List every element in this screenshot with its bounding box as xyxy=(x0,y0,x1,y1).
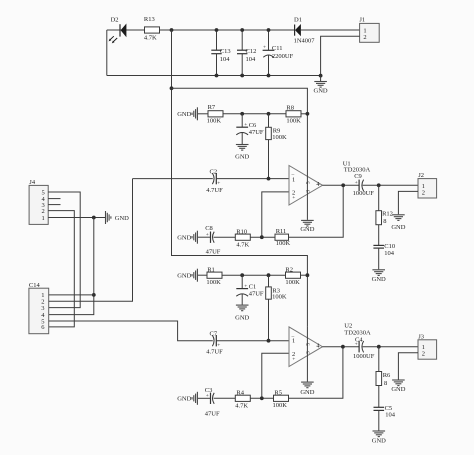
node bias R3 xyxy=(267,273,271,277)
svg-text:4.7K: 4.7K xyxy=(144,35,157,42)
wire xyxy=(198,397,211,399)
connector J4 xyxy=(29,179,48,224)
wire feedback to output U2 xyxy=(289,347,343,399)
capacitor C8 47UF xyxy=(205,225,221,255)
ground power GND xyxy=(314,76,328,95)
svg-text:+: + xyxy=(244,122,247,128)
node +V junction xyxy=(170,28,174,32)
resistor R13 xyxy=(144,16,160,41)
svg-text:3: 3 xyxy=(305,351,311,354)
resistor R12 8 xyxy=(376,185,393,225)
svg-text:GND: GND xyxy=(300,226,314,233)
wire GND rail xyxy=(107,75,321,77)
svg-text:1000UF: 1000UF xyxy=(353,353,375,360)
svg-text:47UF: 47UF xyxy=(205,411,220,418)
svg-text:100K: 100K xyxy=(206,279,221,286)
svg-text:1N4007: 1N4007 xyxy=(294,38,316,45)
svg-text:R8: R8 xyxy=(286,104,294,111)
svg-text:GND: GND xyxy=(300,389,314,396)
wire +V drop to U2 rail xyxy=(172,30,308,327)
op-amp U2 xyxy=(289,322,371,366)
svg-text:100K: 100K xyxy=(285,279,300,286)
capacitor C2 4.7UF xyxy=(206,169,223,194)
svg-text:4.7UF: 4.7UF xyxy=(206,349,223,356)
wire bias row U2 xyxy=(222,274,286,276)
svg-text:4.7K: 4.7K xyxy=(235,403,248,410)
resistor R1 100K xyxy=(206,267,222,286)
ground signal GND feedback U1 xyxy=(177,231,197,244)
ground power GND U2 xyxy=(300,382,314,396)
svg-text:5: 5 xyxy=(305,181,311,184)
svg-text:D1: D1 xyxy=(294,17,302,24)
svg-text:D2: D2 xyxy=(111,17,119,24)
ground power GND below C1 xyxy=(235,305,249,322)
svg-text:GND: GND xyxy=(177,235,191,242)
connector J2 xyxy=(418,172,437,198)
node ground junction xyxy=(319,74,323,78)
wire C4 to J3 xyxy=(363,346,418,348)
capacitor C3 47UF xyxy=(205,387,220,418)
svg-text:+: + xyxy=(355,180,358,186)
resistor R5 100K xyxy=(273,390,289,410)
node R9 input junction xyxy=(267,177,271,181)
svg-text:J3: J3 xyxy=(418,333,424,340)
svg-text:+: + xyxy=(292,195,295,201)
wire U1 pin3 to ground xyxy=(306,166,308,220)
wire xyxy=(214,236,236,238)
svg-text:1: 1 xyxy=(292,338,295,345)
node +V branch xyxy=(170,86,174,90)
svg-text:GND: GND xyxy=(391,224,405,231)
resistor R8 100K xyxy=(286,104,301,124)
svg-text:GND: GND xyxy=(391,386,405,393)
node R3 input junction xyxy=(267,339,271,343)
svg-text:GND: GND xyxy=(235,153,249,160)
resistor R3 100K xyxy=(266,275,287,341)
wire +V top rail xyxy=(107,29,295,31)
svg-text:R10: R10 xyxy=(236,228,247,235)
wire U2 pin2 xyxy=(262,353,289,398)
node R2 to +V xyxy=(306,273,310,277)
node R8 to +V xyxy=(306,112,310,116)
wire bias row U1 xyxy=(223,113,286,115)
wire J4 pin3 stub xyxy=(48,204,60,206)
svg-text:100K: 100K xyxy=(272,134,287,141)
ground power GND C10 xyxy=(372,270,386,283)
ground signal GND feedback U2 xyxy=(177,392,197,405)
node bias C1 xyxy=(240,273,244,277)
wire C14 pin2 to C2 input xyxy=(49,179,133,302)
svg-text:J2: J2 xyxy=(418,172,424,179)
resistor R11 100K xyxy=(275,228,290,247)
svg-text:+: + xyxy=(355,342,358,348)
svg-text:100K: 100K xyxy=(273,402,288,409)
svg-text:1000UF: 1000UF xyxy=(353,190,375,197)
svg-text:TD2030A: TD2030A xyxy=(344,329,371,336)
ground signal GND bias U2 xyxy=(177,269,197,282)
svg-text:C11: C11 xyxy=(272,45,283,52)
resistor R4 4.7K xyxy=(235,390,250,410)
svg-text:R2: R2 xyxy=(285,267,293,274)
wire xyxy=(250,236,275,238)
svg-text:+: + xyxy=(292,357,295,363)
diode D1 1N4007 xyxy=(294,17,360,45)
svg-text:100K: 100K xyxy=(272,294,287,301)
connector J1 xyxy=(359,16,379,42)
node output R6 xyxy=(377,345,381,349)
wire input row U1 xyxy=(133,178,213,180)
svg-text:3: 3 xyxy=(41,305,44,312)
svg-text:2: 2 xyxy=(363,34,366,41)
svg-text:104: 104 xyxy=(246,56,257,63)
svg-text:+: + xyxy=(206,232,209,238)
wire C7 to U2 pin1 xyxy=(216,340,289,342)
svg-text:R12: R12 xyxy=(382,211,393,218)
ground power GND C5 xyxy=(372,431,386,445)
svg-text:C14: C14 xyxy=(29,282,41,289)
wire LED return vertical xyxy=(106,30,108,76)
wire U1 output xyxy=(323,184,360,186)
wire J4 pin2 to C14 pin6 xyxy=(48,211,74,327)
svg-text:104: 104 xyxy=(385,412,396,419)
svg-text:100K: 100K xyxy=(276,240,291,247)
node feedback junction U1 xyxy=(260,235,264,239)
resistor R9 100K xyxy=(266,114,287,179)
node output feedback xyxy=(341,183,345,187)
node bias R9 xyxy=(267,112,271,116)
svg-text:+: + xyxy=(263,44,266,50)
resistor R6 8 xyxy=(376,347,391,387)
svg-text:C7: C7 xyxy=(210,330,218,337)
svg-text:C2: C2 xyxy=(210,169,218,176)
capacitor C13 xyxy=(211,28,230,77)
wire xyxy=(198,274,207,276)
svg-text:+: + xyxy=(217,181,220,187)
node J4 ground junction xyxy=(92,216,96,220)
svg-text:8: 8 xyxy=(383,218,386,225)
capacitor C4 1000UF xyxy=(353,336,375,360)
svg-text:2200UF: 2200UF xyxy=(272,53,294,60)
svg-text:GND: GND xyxy=(177,396,191,403)
wire xyxy=(214,397,236,399)
ground power GND J2 xyxy=(391,215,405,231)
wire J4 pin5 to C14 pin3 xyxy=(48,192,80,308)
wire U1 pin2 xyxy=(262,192,289,237)
svg-text:R6: R6 xyxy=(383,372,391,379)
svg-text:+: + xyxy=(206,393,209,399)
svg-text:47UF: 47UF xyxy=(249,129,264,136)
svg-text:3: 3 xyxy=(305,190,311,193)
node output R12 xyxy=(377,183,381,187)
capacitor C5 104 xyxy=(374,386,396,431)
svg-text:104: 104 xyxy=(220,56,231,63)
resistor R2 100K xyxy=(285,267,300,286)
svg-text:GND: GND xyxy=(177,111,191,118)
svg-text:GND: GND xyxy=(235,315,249,322)
capacitor C6 47UF xyxy=(236,114,264,144)
svg-text:1: 1 xyxy=(292,176,295,183)
LED D2 xyxy=(109,17,127,44)
svg-text:R7: R7 xyxy=(208,104,216,111)
svg-text:R13: R13 xyxy=(144,16,155,23)
ground power GND below C6 xyxy=(235,145,249,161)
svg-text:4.7UF: 4.7UF xyxy=(206,187,223,194)
svg-text:GND: GND xyxy=(372,276,386,283)
node output feedback U2 xyxy=(341,345,345,349)
capacitor C9 1000UF xyxy=(353,173,375,197)
svg-text:104: 104 xyxy=(384,250,395,257)
svg-text:J1: J1 xyxy=(359,16,365,23)
wire xyxy=(250,397,273,399)
op-amp U1 xyxy=(289,160,370,205)
wire feedback to output U1 xyxy=(289,185,344,237)
node C14 pin1 junction xyxy=(92,293,96,297)
svg-text:GND: GND xyxy=(372,438,386,445)
wire C9 to J2 xyxy=(363,184,418,186)
node bias C6 xyxy=(240,112,244,116)
svg-text:R11: R11 xyxy=(276,228,287,235)
svg-text:U2: U2 xyxy=(344,322,352,329)
capacitor C12 xyxy=(237,28,256,77)
connector J3 xyxy=(418,333,437,359)
wire J2 pin2 to ground xyxy=(398,191,418,214)
wire xyxy=(301,274,308,276)
svg-text:C13: C13 xyxy=(220,48,231,55)
svg-text:47UF: 47UF xyxy=(249,290,264,297)
wire xyxy=(301,113,307,115)
wire C2 to U1 pin1 xyxy=(216,178,289,180)
svg-text:GND: GND xyxy=(314,87,328,94)
svg-text:C9: C9 xyxy=(354,173,362,180)
wire ground to C14 pin4 xyxy=(49,218,94,315)
svg-text:1: 1 xyxy=(42,215,45,222)
ground power GND U1 xyxy=(300,220,314,233)
svg-text:R5: R5 xyxy=(274,390,282,397)
svg-text:R1: R1 xyxy=(207,267,215,274)
wire C14 pin1 xyxy=(49,294,94,296)
svg-text:+: + xyxy=(244,284,247,290)
svg-text:8: 8 xyxy=(384,380,387,387)
svg-text:GND: GND xyxy=(177,273,191,280)
capacitor C7 4.7UF xyxy=(206,330,223,355)
svg-text:47UF: 47UF xyxy=(206,249,221,256)
svg-text:C10: C10 xyxy=(384,243,395,250)
capacitor C11 xyxy=(263,28,294,77)
resistor R7 100K xyxy=(207,104,223,124)
svg-text:5: 5 xyxy=(305,343,311,346)
ground signal GND bias U1 xyxy=(177,107,197,120)
node feedback junction U2 xyxy=(260,396,264,400)
wire U2 pin3 to ground xyxy=(306,327,308,382)
capacitor C10 104 xyxy=(373,225,395,270)
svg-text:100K: 100K xyxy=(207,117,222,124)
wire U2 output xyxy=(323,346,360,348)
svg-text:C12: C12 xyxy=(246,48,257,55)
wire J1 pin2 to ground xyxy=(321,36,360,75)
svg-text:GND: GND xyxy=(115,215,129,222)
wire J4 pin4 stub xyxy=(48,198,60,200)
ground signal GND J4 xyxy=(106,211,130,224)
svg-text:J4: J4 xyxy=(29,179,36,186)
wire xyxy=(198,113,208,115)
svg-text:2: 2 xyxy=(422,351,425,358)
wire C14 pin5 to C7 input xyxy=(49,321,213,341)
resistor R10 4.7K xyxy=(235,228,250,248)
svg-text:100K: 100K xyxy=(286,117,301,124)
wire xyxy=(198,236,211,238)
ground power GND J3 xyxy=(391,380,405,393)
svg-text:2: 2 xyxy=(422,190,425,197)
wire +V rail to U1 xyxy=(172,88,308,165)
connector C14 xyxy=(29,282,49,334)
wire J4 pin1 to ground xyxy=(48,217,105,219)
svg-text:4.7K: 4.7K xyxy=(236,241,249,248)
svg-text:R4: R4 xyxy=(236,390,244,397)
capacitor C1 47UF xyxy=(236,275,264,304)
wire J3 pin2 to ground xyxy=(398,353,418,380)
